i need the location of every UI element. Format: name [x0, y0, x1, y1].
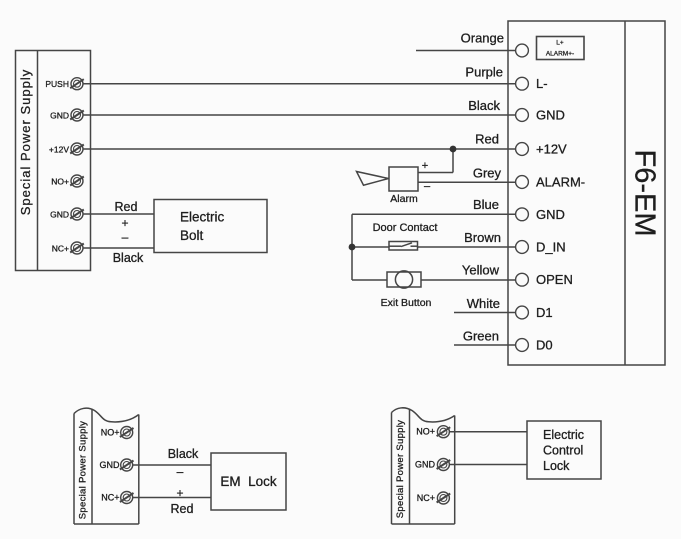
svg-text:NO+: NO+ — [416, 427, 435, 437]
svg-text:White: White — [467, 296, 500, 311]
svg-text:ALARM-: ALARM- — [536, 175, 585, 190]
svg-text:GND: GND — [50, 110, 69, 120]
svg-text:Special Power Supply: Special Power Supply — [18, 69, 33, 215]
svg-text:+12V: +12V — [536, 142, 567, 157]
svg-text:Door Contact: Door Contact — [373, 222, 438, 234]
svg-text:GND: GND — [536, 108, 565, 123]
svg-text:Electric: Electric — [180, 210, 225, 225]
svg-text:GND: GND — [415, 460, 436, 470]
svg-text:PUSH: PUSH — [45, 79, 69, 89]
svg-text:–: – — [122, 230, 129, 244]
svg-text:NO+: NO+ — [51, 176, 69, 186]
svg-text:NC+: NC+ — [52, 243, 69, 253]
svg-text:Red: Red — [171, 502, 194, 516]
svg-text:Blue: Blue — [473, 197, 499, 212]
svg-text:NC+: NC+ — [417, 493, 435, 503]
svg-text:Black: Black — [113, 251, 144, 265]
svg-text:Exit Button: Exit Button — [381, 297, 432, 309]
svg-text:GND: GND — [50, 209, 69, 219]
svg-text:Special Power Supply: Special Power Supply — [78, 421, 89, 519]
svg-text:Lock: Lock — [543, 459, 570, 473]
svg-text:ALARM+-: ALARM+- — [546, 51, 574, 58]
svg-text:Green: Green — [463, 329, 499, 344]
svg-text:+: + — [121, 216, 128, 230]
svg-text:F6-EM: F6-EM — [629, 150, 661, 237]
svg-text:D0: D0 — [536, 338, 553, 353]
svg-text:L-: L- — [536, 76, 548, 91]
svg-text:NC+: NC+ — [101, 493, 119, 503]
svg-text:Control: Control — [543, 444, 583, 458]
svg-text:–: – — [177, 465, 184, 479]
svg-text:GND: GND — [536, 207, 565, 222]
svg-text:NO+: NO+ — [101, 428, 120, 438]
svg-text:Grey: Grey — [473, 166, 502, 181]
svg-text:GND: GND — [100, 460, 121, 470]
svg-text:Black: Black — [168, 447, 199, 461]
svg-text:D_IN: D_IN — [536, 240, 566, 255]
svg-text:+12V: +12V — [49, 144, 69, 154]
svg-text:OPEN: OPEN — [536, 272, 573, 287]
svg-text:Alarm: Alarm — [390, 193, 418, 205]
svg-text:–: – — [424, 181, 431, 193]
svg-text:Electric: Electric — [543, 428, 584, 442]
svg-text:EM Lock: EM Lock — [220, 474, 277, 489]
svg-text:Red: Red — [115, 200, 138, 214]
svg-text:Bolt: Bolt — [180, 228, 204, 243]
svg-text:L+: L+ — [556, 40, 564, 47]
svg-text:+: + — [176, 486, 183, 500]
svg-text:Red: Red — [475, 132, 499, 147]
svg-text:Brown: Brown — [464, 230, 501, 245]
svg-text:Black: Black — [468, 98, 500, 113]
svg-text:Yellow: Yellow — [462, 263, 500, 278]
svg-text:Purple: Purple — [465, 65, 503, 80]
svg-text:Special Power Supply: Special Power Supply — [395, 420, 406, 518]
svg-text:Orange: Orange — [461, 31, 504, 46]
svg-text:D1: D1 — [536, 305, 553, 320]
svg-text:+: + — [422, 160, 428, 172]
